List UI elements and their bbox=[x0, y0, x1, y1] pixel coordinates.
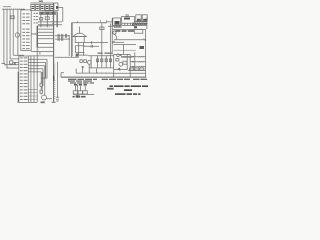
node dot left 2 bbox=[6, 67, 7, 68]
wires right top bbox=[107, 17, 147, 29]
caps row 2 bbox=[55, 38, 69, 40]
stub with dot from U1 bbox=[31, 33, 36, 35]
small comp box b bbox=[45, 17, 49, 20]
node dot left 1 bbox=[4, 64, 5, 65]
lower right box bbox=[114, 54, 131, 77]
meter circle B1 bbox=[15, 33, 19, 37]
column B pin labels bbox=[34, 13, 39, 24]
tiny text above ladder bbox=[98, 53, 113, 54]
wire under boxes bbox=[73, 93, 94, 95]
T-block dark texts bbox=[115, 18, 147, 58]
IC U2 lower body bbox=[18, 56, 38, 102]
caption text rows bbox=[68, 79, 147, 84]
U2 pin label rows bbox=[20, 57, 28, 100]
wire left vertical 5 bbox=[17, 9, 19, 56]
second row boxes bbox=[40, 12, 45, 15]
speaker LS1 bbox=[78, 27, 80, 34]
inline comp on left wire bbox=[11, 16, 14, 19]
wires strip to bus bbox=[38, 26, 53, 47]
comp boxes mid bbox=[80, 60, 82, 63]
rect right mid bbox=[134, 29, 143, 33]
wire y46 bbox=[84, 45, 99, 48]
stubs on top wire bbox=[77, 20, 107, 23]
connector top box 4 bbox=[45, 5, 49, 11]
K labels bbox=[41, 84, 114, 103]
wire into U2 row a bbox=[5, 55, 24, 68]
wire y29.4 bbox=[112, 28, 145, 30]
caps row 1 bbox=[55, 35, 69, 37]
box mid bbox=[76, 46, 85, 53]
hatch row dark bbox=[132, 23, 147, 25]
wire y42.3 bbox=[112, 41, 124, 43]
dark blob near box5 bbox=[56, 6, 58, 9]
wires top-mid bbox=[38, 11, 62, 27]
lamp circle bbox=[113, 31, 116, 34]
dark comp blob bbox=[76, 54, 79, 57]
circle small bbox=[117, 54, 120, 57]
hatch ticks on bar bbox=[3, 8, 24, 9]
wire vertical x57.5 bbox=[57, 12, 59, 97]
top-right box T1 bbox=[113, 18, 121, 26]
ladder top wire bbox=[88, 55, 114, 57]
connector top box 5 bbox=[50, 5, 54, 11]
wire y39.7 bbox=[114, 38, 146, 39]
frame bottom bold bbox=[61, 76, 146, 78]
cap C mid bbox=[82, 66, 84, 67]
bottom three boxes K1 K2 K3 bbox=[76, 86, 86, 91]
wire left vertical 4 bbox=[12, 9, 14, 55]
ladder verticals bbox=[91, 24, 110, 69]
wire y51.6 bbox=[31, 52, 53, 55]
resistor R row bbox=[96, 59, 98, 62]
box corner bbox=[114, 45, 136, 55]
transistor Q bottom bbox=[42, 95, 47, 100]
three boxes row right bbox=[130, 68, 134, 70]
comp on vertical bbox=[100, 27, 104, 30]
title block text bbox=[110, 85, 149, 95]
right border bbox=[145, 29, 147, 77]
relay contact box bbox=[10, 61, 13, 64]
connector top box 2 bbox=[36, 5, 40, 11]
dark connector strip bbox=[37, 26, 38, 48]
short verticals to bottom wire bbox=[76, 65, 96, 74]
bus column lines right of U2 bbox=[31, 48, 37, 103]
transistor Q right bbox=[119, 62, 123, 66]
IC U1 body bbox=[21, 10, 31, 51]
U1 pin label rows bbox=[22, 13, 29, 49]
T2 bbox=[122, 17, 135, 24]
vertical x77.6 with sym bbox=[76, 85, 80, 96]
bar end x57.5 bbox=[56, 97, 59, 101]
main frame top wire bbox=[72, 22, 108, 24]
connector row top: wire above bbox=[31, 3, 59, 11]
relay dark box bbox=[140, 46, 145, 49]
grid dashes bottom table bbox=[28, 90, 37, 100]
wires from U2 right staircase bbox=[28, 56, 53, 72]
wire top-left hatched bar bbox=[2, 8, 25, 10]
node dot col bbox=[33, 62, 34, 63]
wire top exit bbox=[58, 7, 63, 22]
connector box text dots bbox=[32, 1, 55, 14]
bus bottom bar bbox=[52, 101, 56, 103]
ladder bottom wires bbox=[76, 68, 114, 73]
wire left vertical 1 bbox=[2, 9, 6, 65]
faint text above bar bbox=[3, 6, 11, 7]
comp right bbox=[123, 61, 127, 64]
main bus line bbox=[53, 3, 55, 102]
IC U2 bold left edge bbox=[17, 72, 19, 102]
wire left vertical 2 bbox=[6, 9, 8, 68]
dark box end of hatch bbox=[134, 26, 137, 28]
bus ticks left bbox=[52, 10, 55, 99]
node dot col2 bbox=[37, 65, 38, 66]
wire y57.3 vertical corner bbox=[61, 73, 64, 78]
diode marks bbox=[112, 41, 114, 44]
T4 bbox=[142, 15, 147, 21]
T3 bbox=[136, 15, 141, 21]
wire y42.5 bbox=[84, 24, 108, 45]
rect small bbox=[116, 59, 119, 61]
comp box on wire b1 bbox=[40, 83, 42, 86]
x mark bbox=[14, 63, 16, 65]
wire y73.2 bbox=[112, 72, 145, 74]
contact ticks under wire bbox=[114, 25, 122, 27]
connector top box 1 bbox=[31, 5, 35, 11]
small comp box a bbox=[40, 18, 43, 20]
inner vertical right bbox=[111, 18, 113, 54]
connector top box 3 bbox=[40, 5, 44, 11]
verticals mid bbox=[69, 23, 72, 56]
diode bottom bbox=[114, 68, 128, 71]
comp box b2 bbox=[40, 90, 43, 93]
pin wires right bbox=[130, 57, 146, 67]
wire left vertical 3 bbox=[9, 9, 11, 59]
T2 contact rows bbox=[122, 23, 135, 25]
transistor Q mid bbox=[88, 61, 92, 65]
wire y55.1 bbox=[55, 55, 88, 57]
bus dark segment bbox=[53, 76, 54, 81]
